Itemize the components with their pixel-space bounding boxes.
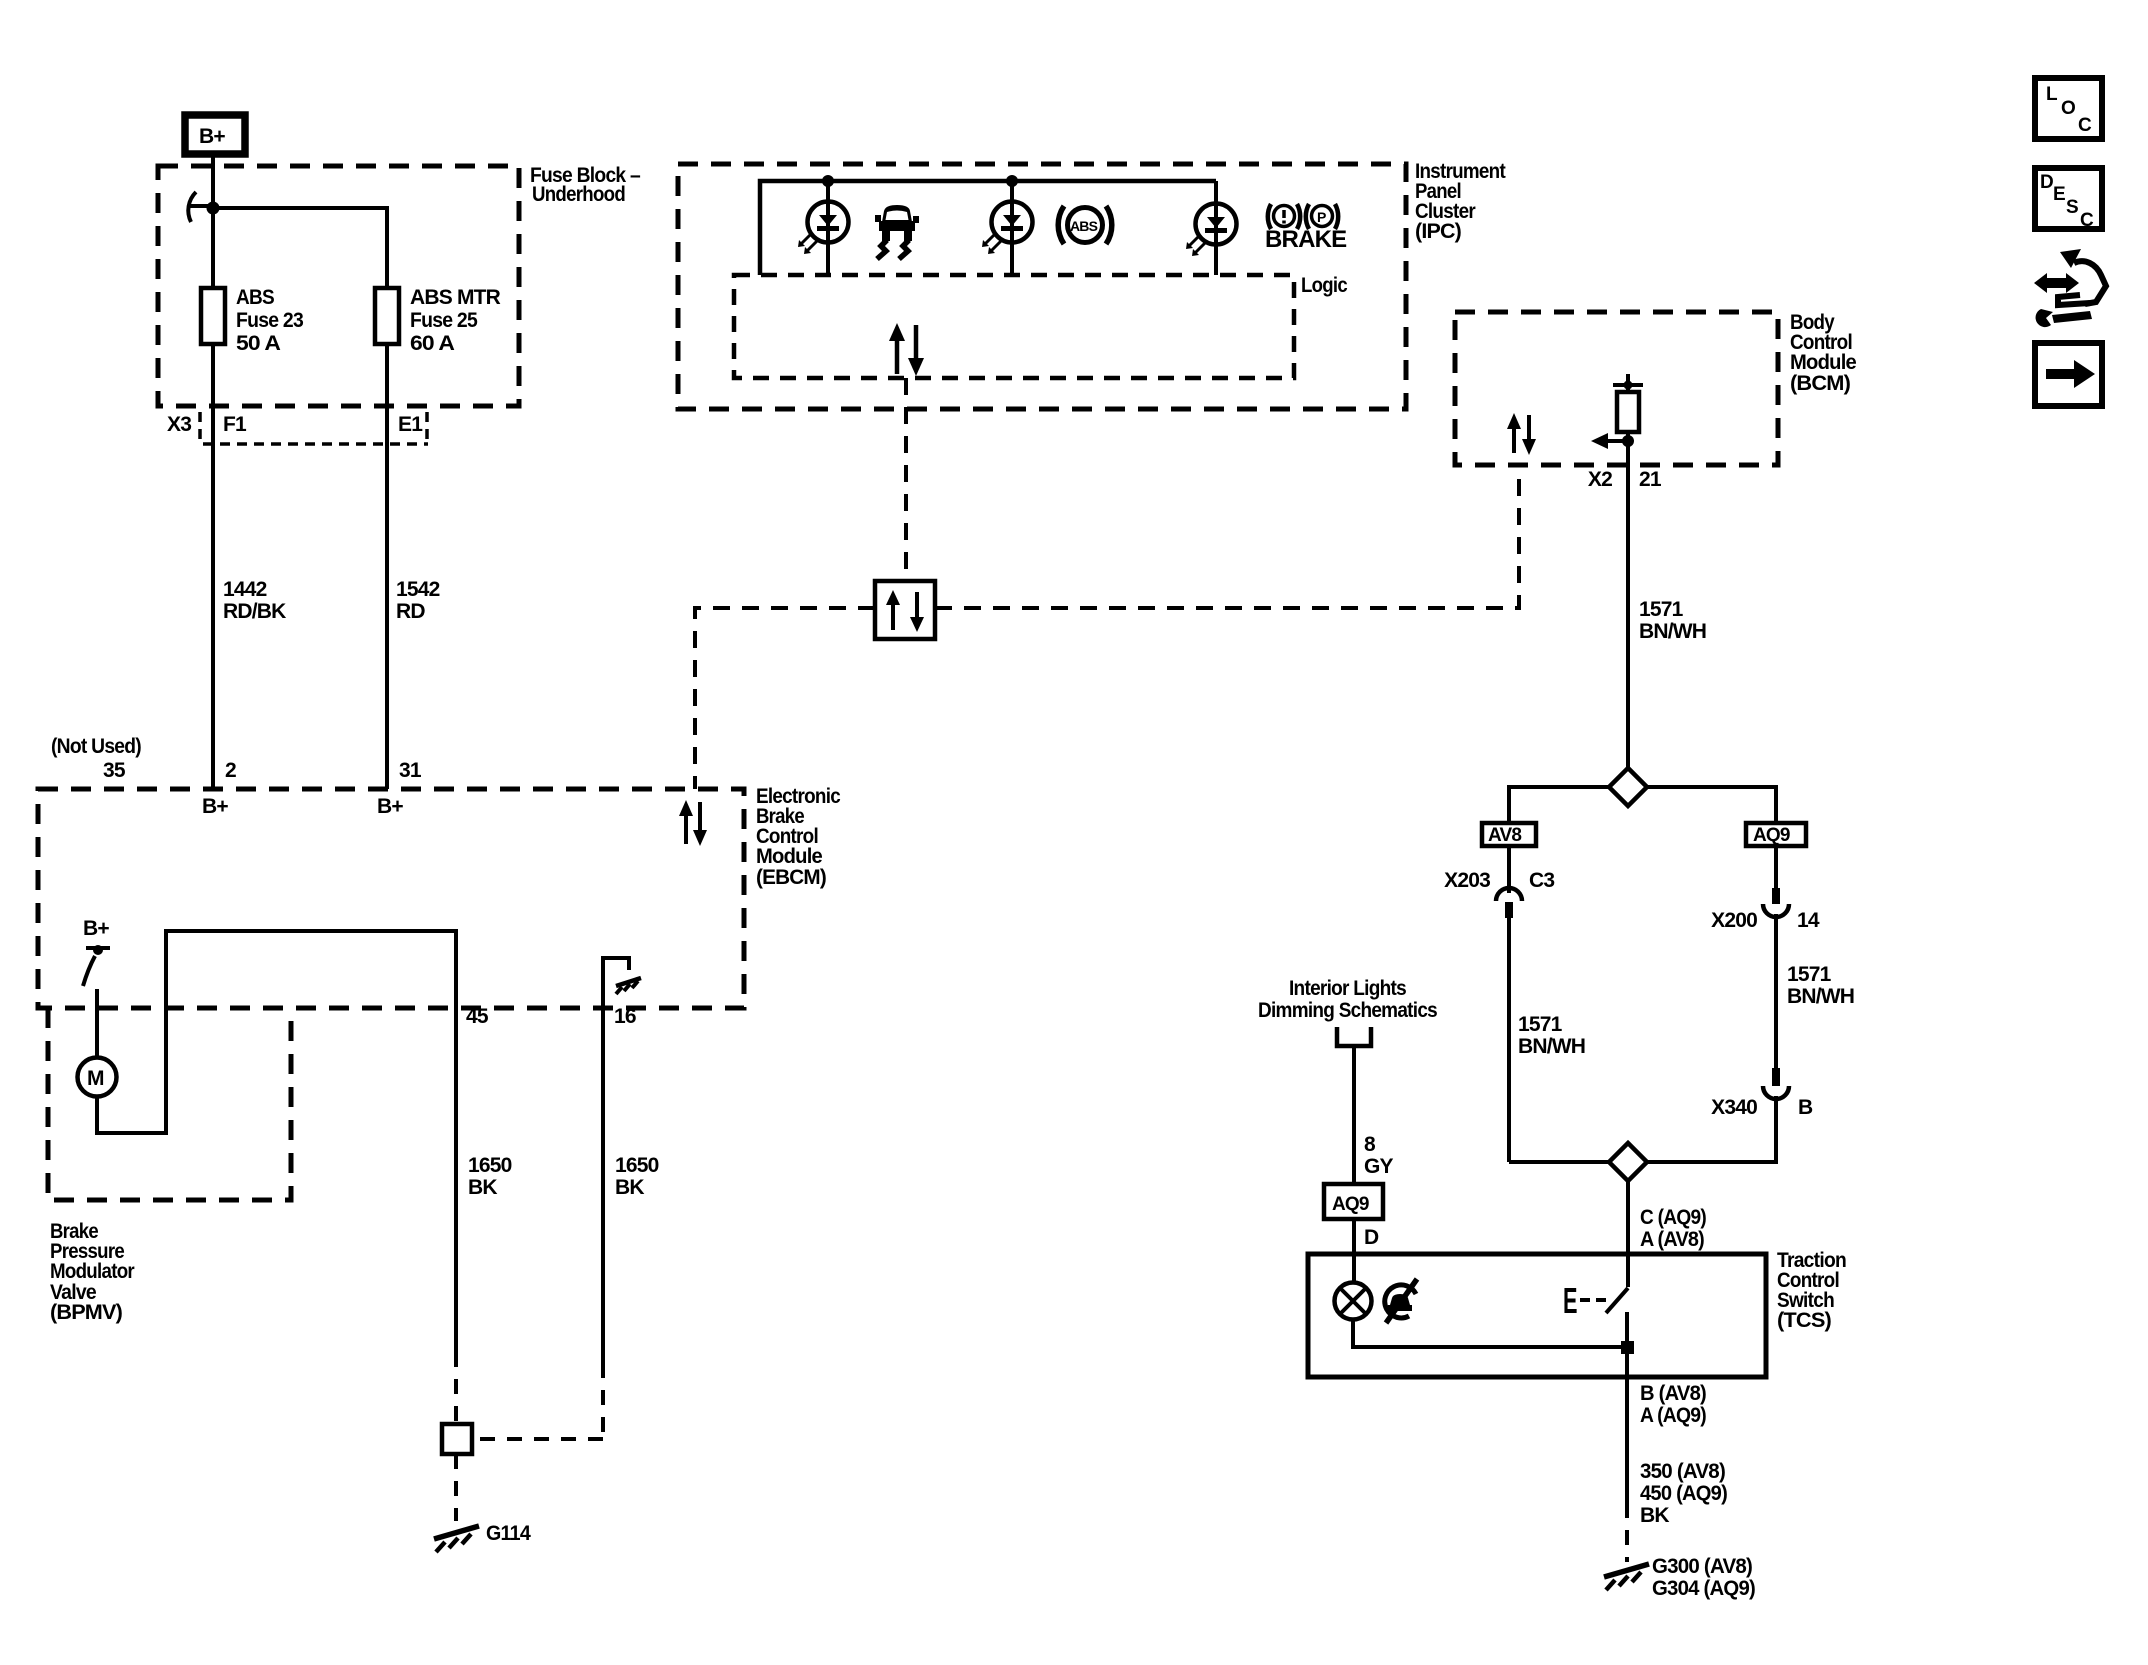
BCM dashed box: [1455, 312, 1778, 465]
label Instrument Panel Cluster (IPC): [1415, 160, 1506, 243]
svg-text:1571: 1571: [1787, 963, 1832, 986]
svg-text:Fuse 23: Fuse 23: [236, 309, 303, 332]
wire fuse 25 to EBCM pin 31: [385, 344, 389, 789]
wire label 1442 RD/BK: [223, 578, 286, 623]
motor M pump: [78, 1058, 117, 1097]
dashed wire 16 down: [601, 1363, 605, 1438]
svg-text:35: 35: [103, 759, 126, 782]
svg-text:Underhood: Underhood: [532, 183, 625, 206]
wire label 1542 RD: [396, 578, 440, 623]
svg-text:(EBCM): (EBCM): [756, 866, 826, 889]
svg-text:A (AQ9): A (AQ9): [1640, 1404, 1706, 1427]
svg-text:E: E: [1563, 1280, 1577, 1321]
splice curl symbol: [188, 192, 213, 222]
wire AV8 to connector C3: [1507, 846, 1511, 893]
svg-text:X203: X203: [1444, 869, 1490, 892]
label Body Control Module (BCM): [1790, 311, 1856, 395]
svg-text:O: O: [2061, 98, 2075, 119]
svg-text:BN/WH: BN/WH: [1518, 1035, 1585, 1058]
svg-text:RD/BK: RD/BK: [223, 600, 286, 623]
svg-text:(IPC): (IPC): [1415, 220, 1461, 243]
svg-text:GY: GY: [1364, 1155, 1394, 1178]
battery feed B+ box: [185, 115, 245, 154]
node switch junction: [1621, 1341, 1634, 1354]
dashed wire to G300: [1625, 1503, 1629, 1562]
serial box arrows: [886, 590, 924, 632]
splice block: [442, 1424, 472, 1454]
svg-text:Module: Module: [756, 845, 822, 868]
Fuse Block label: [530, 164, 641, 206]
dashed serial wire to EBCM: [695, 608, 875, 789]
wire B+ to fuse 23: [211, 154, 215, 288]
wire label 1571 BN/WH right: [1787, 963, 1854, 1008]
LED brake indicator: [1186, 181, 1237, 275]
svg-text:Module: Module: [1790, 351, 1856, 374]
Fuse Block - Underhood dashed box: [158, 166, 519, 406]
svg-text:ABS: ABS: [236, 286, 275, 309]
svg-text:F1: F1: [223, 413, 247, 436]
harness tag AQ9: [1746, 823, 1806, 846]
Logic dashed box: [734, 275, 1294, 378]
Traction Control Switch box: [1308, 1254, 1766, 1377]
svg-text:(BCM): (BCM): [1790, 372, 1850, 395]
wire lower diamond left: [1509, 1160, 1610, 1164]
svg-text:350 (AV8): 350 (AV8): [1640, 1460, 1725, 1483]
svg-text:AQ9: AQ9: [1753, 825, 1790, 846]
wire BCM to splice diamond: [1626, 465, 1630, 770]
svg-text:BN/WH: BN/WH: [1787, 985, 1854, 1008]
IPC logic serial arrows: [889, 323, 924, 376]
wire diamond to AQ9: [1647, 787, 1776, 823]
svg-text:G304 (AQ9): G304 (AQ9): [1652, 1577, 1755, 1600]
svg-text:45: 45: [466, 1005, 489, 1028]
svg-text:L: L: [2046, 84, 2058, 105]
svg-text:BK: BK: [615, 1176, 644, 1199]
IPC feed bus wire: [760, 181, 1216, 275]
svg-text:BK: BK: [468, 1176, 497, 1199]
DESC nav icon: [2035, 168, 2102, 231]
svg-text:C: C: [2080, 210, 2094, 231]
svg-text:Modulator: Modulator: [50, 1260, 135, 1283]
wire label 1571 BN/WH left: [1518, 1013, 1585, 1058]
ABS warning icon: [1058, 206, 1112, 244]
svg-text:21: 21: [1639, 468, 1662, 491]
splice diamond lower: [1609, 1143, 1647, 1181]
label Electronic Brake Control Module (EBCM): [756, 785, 841, 889]
dashed wire 16 to splice: [472, 1437, 603, 1441]
dashed wire 45 to splice: [454, 1352, 458, 1424]
svg-text:X3: X3: [167, 413, 191, 436]
svg-text:M: M: [87, 1067, 104, 1090]
BCM internal voltage symbol: [1613, 374, 1643, 392]
dashed serial wire IPC to splice box: [904, 378, 908, 581]
svg-text:RD: RD: [396, 600, 425, 623]
wire lamp to switch junction: [1353, 1319, 1627, 1347]
ground G114: [434, 1522, 531, 1552]
connector X203 C3: [1444, 869, 1554, 918]
svg-text:60 A: 60 A: [410, 332, 455, 355]
svg-text:B+: B+: [199, 125, 225, 148]
wire AQ9 to connector 14: [1774, 846, 1778, 888]
svg-text:P: P: [1317, 209, 1326, 225]
wire label 1650 BK left: [468, 1154, 512, 1199]
IPC dashed box: [678, 164, 1406, 409]
svg-text:Fuse 25: Fuse 25: [410, 309, 478, 332]
svg-text:B+: B+: [83, 917, 109, 940]
splice diamond upper: [1609, 768, 1647, 806]
node bus LED1: [822, 175, 834, 187]
connector X200 14: [1711, 888, 1820, 932]
wire motor to EBCM pin 45: [97, 931, 456, 1352]
svg-text:(Not Used): (Not Used): [51, 735, 141, 758]
fuse ABS MTR Fuse 25: [375, 288, 399, 344]
svg-text:1571: 1571: [1639, 598, 1684, 621]
svg-text:C3: C3: [1529, 869, 1554, 892]
LED ABS indicator: [798, 181, 849, 275]
wire diamond to AV8: [1509, 787, 1609, 823]
svg-text:50 A: 50 A: [236, 332, 281, 355]
svg-text:G114: G114: [486, 1522, 531, 1545]
connector X3 row: [167, 412, 428, 444]
svg-text:S: S: [2066, 197, 2078, 218]
svg-text:A (AV8): A (AV8): [1640, 1228, 1704, 1251]
label Brake Pressure Modulator Valve (BPMV): [50, 1220, 135, 1324]
dashed wire splice to G114: [454, 1454, 458, 1521]
svg-text:C: C: [2078, 115, 2092, 136]
wire branch to fuse 25: [213, 208, 387, 288]
wire bracket to AQ9: [1352, 1046, 1356, 1184]
svg-text:ABS MTR: ABS MTR: [410, 286, 501, 309]
LED traction indicator: [982, 181, 1033, 275]
svg-text:16: 16: [614, 1005, 636, 1028]
connector X2 pin 21 labels: [1588, 468, 1662, 491]
off-page bracket Interior Lights: [1258, 977, 1437, 1046]
node bus LED2: [1006, 175, 1018, 187]
svg-text:(BPMV): (BPMV): [50, 1301, 122, 1324]
BCM pull-up resistor: [1617, 392, 1639, 432]
svg-text:450 (AQ9): 450 (AQ9): [1640, 1482, 1727, 1505]
label ABS MTR Fuse 25 60 A: [410, 286, 501, 355]
serial data junction box: [875, 581, 935, 639]
svg-text:BN/WH: BN/WH: [1639, 620, 1706, 643]
svg-text:D: D: [1364, 1226, 1379, 1249]
ground G300 G304: [1604, 1555, 1755, 1600]
EBCM internal B+ switch: [83, 917, 110, 986]
wire EBCM pin 16 down: [601, 1008, 605, 1363]
svg-text:1542: 1542: [396, 578, 440, 601]
EBCM internal ground pin 16: [603, 958, 641, 1008]
svg-text:E1: E1: [398, 413, 423, 436]
connector X340 B: [1711, 1068, 1813, 1119]
svg-text:1650: 1650: [468, 1154, 512, 1177]
label ABS Fuse 23 50 A: [236, 286, 303, 355]
fuse ABS Fuse 23: [201, 288, 225, 344]
svg-text:14: 14: [1797, 909, 1820, 932]
wire 14 to X340: [1774, 914, 1778, 1068]
svg-text:1571: 1571: [1518, 1013, 1563, 1036]
svg-text:2: 2: [225, 759, 236, 782]
svg-text:AV8: AV8: [1488, 825, 1521, 846]
svg-text:1650: 1650: [615, 1154, 659, 1177]
svg-text:B (AV8): B (AV8): [1640, 1382, 1706, 1405]
BPMV dashed box: [48, 1008, 291, 1200]
pin label B (AV8) A (AQ9): [1640, 1382, 1706, 1427]
svg-text:AQ9: AQ9: [1332, 1194, 1369, 1215]
wire label 1650 BK right: [615, 1154, 659, 1199]
svg-text:X200: X200: [1711, 909, 1757, 932]
svg-text:8: 8: [1364, 1133, 1376, 1156]
wire fuse 23 to EBCM pin 2: [211, 344, 215, 789]
harness tag AV8: [1482, 823, 1536, 846]
svg-text:B: B: [1798, 1096, 1813, 1119]
dashed serial wire to BCM: [935, 465, 1519, 608]
svg-text:1442: 1442: [223, 578, 267, 601]
svg-text:BK: BK: [1640, 1504, 1669, 1527]
wire label 350 (AV8) 450 (AQ9) BK: [1640, 1460, 1727, 1527]
wire diamond to TCS: [1626, 1181, 1630, 1254]
pin label C (AQ9) A (AV8): [1640, 1206, 1706, 1251]
svg-text:BRAKE: BRAKE: [1265, 226, 1347, 253]
wire X340 to lower diamond: [1646, 1096, 1776, 1162]
BCM serial arrows: [1507, 413, 1536, 455]
wire AQ9 to TCS lamp: [1352, 1219, 1356, 1284]
svg-text:E: E: [2053, 184, 2065, 205]
label Traction Control Switch (TCS): [1777, 1249, 1846, 1332]
svg-text:B+: B+: [377, 795, 403, 818]
LOC nav icon: [2035, 78, 2102, 139]
label (Not Used) 35: [51, 735, 141, 782]
node splice at fuse block feed: [207, 202, 220, 215]
wire C3 to lower diamond: [1507, 918, 1511, 1162]
BCM driver arrow: [1591, 432, 1634, 465]
svg-text:X340: X340: [1711, 1096, 1757, 1119]
forward nav icon: [2035, 343, 2102, 406]
wire switch to pump motor: [95, 989, 99, 1058]
TC off icon: [1385, 1279, 1417, 1323]
svg-text:(TCS): (TCS): [1777, 1309, 1831, 1332]
TCS indicator lamp: [1335, 1283, 1372, 1320]
svg-text:ABS: ABS: [1070, 218, 1098, 234]
svg-text:X2: X2: [1588, 468, 1612, 491]
TCS switch: [1563, 1254, 1628, 1347]
svg-text:Interior Lights: Interior Lights: [1289, 977, 1406, 1000]
wire TCS to ground: [1625, 1354, 1629, 1503]
wrench diagnostics icon: [2034, 249, 2106, 327]
svg-text:D: D: [2040, 172, 2053, 193]
svg-text:C (AQ9): C (AQ9): [1640, 1206, 1706, 1229]
svg-text:B+: B+: [202, 795, 228, 818]
traction control car icon: [875, 205, 919, 259]
harness tag AQ9 lower: [1324, 1184, 1383, 1219]
EBCM dashed box: [38, 789, 744, 1008]
brake warning icon (!)(P) BRAKE: [1265, 204, 1347, 253]
wire label 8 GY: [1364, 1133, 1394, 1178]
svg-text:31: 31: [399, 759, 422, 782]
svg-text:G300 (AV8): G300 (AV8): [1652, 1555, 1752, 1578]
svg-text:Logic: Logic: [1301, 274, 1348, 297]
wire label 1571 BN/WH top: [1639, 598, 1706, 643]
svg-text:Dimming Schematics: Dimming Schematics: [1258, 999, 1437, 1022]
EBCM serial data arrows: [679, 800, 707, 846]
